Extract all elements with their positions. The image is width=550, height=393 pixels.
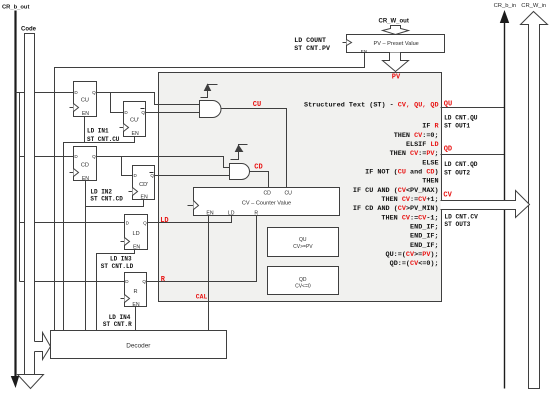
bus Code outline [25, 34, 35, 375]
svg-text:EN: EN [82, 111, 89, 117]
wire CD' D jog [122, 157, 133, 176]
svg-text:Decoder: Decoder [126, 342, 151, 349]
svg-text:Q: Q [143, 220, 147, 225]
svg-text:QU:=(CV>=PV);: QU:=(CV>=PV); [386, 251, 439, 259]
svg-text:QU: QU [299, 237, 307, 243]
svg-text:CR_b_in: CR_b_in [494, 3, 517, 9]
wire CR_b_in rail [504, 21, 506, 389]
svg-text:LD: LD [228, 211, 235, 217]
wire CD D row [20, 156, 74, 158]
svg-text:CR_W_out: CR_W_out [379, 19, 409, 25]
comparator QU CV>=PV [268, 228, 339, 257]
wire IN2 branch to CD' EN [86, 200, 144, 207]
wire IN3 net [97, 250, 135, 331]
flip-flop CD' [133, 166, 155, 200]
svg-text:QD: QD [299, 277, 307, 283]
svg-text:ELSE: ELSE [422, 159, 438, 167]
wire IN1 net [64, 137, 135, 331]
function block ST panel [159, 73, 442, 302]
svg-text:LD CNT.QD: LD CNT.QD [444, 161, 478, 168]
decoder [51, 331, 227, 359]
svg-text:CR_W_in: CR_W_in [521, 3, 546, 9]
register PV=Preset Value [347, 35, 445, 53]
svg-text:CAL: CAL [196, 294, 208, 301]
svg-text:CV<=0: CV<=0 [295, 283, 311, 289]
edge detect symbol CU [201, 85, 218, 98]
wire CD' Qbar to gate [155, 175, 230, 177]
wire LD Q to CV [148, 216, 232, 223]
svg-text:ST CNT.LD: ST CNT.LD [101, 263, 134, 270]
svg-text:CU': CU' [130, 117, 139, 123]
arrow CR_W_out into PV [383, 26, 409, 35]
svg-text:THEN: THEN [422, 178, 438, 186]
svg-text:LD IN1: LD IN1 [87, 127, 109, 134]
svg-text:THEN CV:=0;: THEN CV:=0; [394, 132, 439, 140]
svg-text:LD COUNT: LD COUNT [294, 37, 326, 44]
register CV=Counter Value [194, 188, 340, 216]
wire CR_b_out rail [14, 11, 16, 378]
svg-text:THEN CV:=CV-1;: THEN CV:=CV-1; [381, 214, 438, 222]
svg-text:ELSIF LD: ELSIF LD [406, 141, 439, 149]
svg-text:END_IF;: END_IF; [410, 224, 439, 232]
svg-text:CD: CD [263, 191, 271, 197]
svg-text:LD IN4: LD IN4 [109, 314, 131, 321]
wire CU' Qbar to gate [145, 112, 147, 114]
svg-text:R: R [254, 211, 258, 217]
svg-text:QU: QU [444, 100, 452, 108]
wire bit-branch vertical [19, 93, 21, 282]
wire R Q to CV [147, 216, 257, 282]
wire R D row [20, 281, 125, 283]
svg-text:Q: Q [141, 110, 145, 115]
wire QU output [441, 107, 505, 109]
wire CU Q to gate [97, 93, 200, 105]
wire IN4 net [135, 307, 137, 331]
svg-text:ST CNT.R: ST CNT.R [103, 321, 132, 328]
svg-text:Q: Q [150, 173, 154, 178]
svg-text:Q: Q [92, 154, 96, 159]
svg-text:IF NOT (CU and CD): IF NOT (CU and CD) [365, 169, 438, 177]
wire CU D row [16, 92, 74, 94]
arrow Code to Decoder outline [35, 333, 51, 360]
flip-flop CU' [124, 102, 146, 137]
AND gate U1 (CU) [200, 101, 222, 118]
svg-text:PV – Preset Value: PV – Preset Value [374, 41, 419, 47]
svg-text:IF R: IF R [422, 123, 439, 131]
wire IN2 net [85, 181, 87, 331]
svg-text:LD IN2: LD IN2 [90, 189, 112, 196]
arrow CV output [441, 191, 530, 218]
svg-text:IF CU AND (CV<PV_MAX): IF CU AND (CV<PV_MAX) [353, 187, 439, 195]
svg-text:IF CD AND (CV>PV_MIN): IF CD AND (CV>PV_MIN) [353, 205, 439, 213]
svg-text:ST CNT.CD: ST CNT.CD [90, 196, 123, 203]
svg-text:ST OUT2: ST OUT2 [444, 169, 470, 176]
svg-text:Structured Text (ST) - CV, QU,: Structured Text (ST) - CV, QU, QD [304, 101, 439, 109]
svg-text:EN: EN [361, 49, 368, 55]
svg-text:ST CNT.CU: ST CNT.CU [87, 136, 120, 143]
wire CD Q to gate [97, 157, 230, 168]
bus Code arrowhead [18, 375, 44, 389]
svg-text:CV – Counter Value: CV – Counter Value [242, 200, 291, 206]
svg-text:CV>=PV: CV>=PV [293, 244, 313, 250]
wire PV enable rail [55, 53, 365, 331]
svg-text:QD:=(CV<=0);: QD:=(CV<=0); [390, 260, 439, 268]
svg-text:Q: Q [92, 90, 96, 95]
svg-text:Q: Q [142, 279, 146, 284]
bus Code body fill [24, 33, 34, 375]
wire CU gate output [221, 109, 287, 188]
svg-text:CD': CD' [139, 182, 148, 188]
svg-text:THEN CV:=CV+1;: THEN CV:=CV+1; [381, 196, 438, 204]
svg-text:END_IF;: END_IF; [410, 233, 439, 241]
wire CD gate output [250, 172, 269, 188]
svg-text:EN: EN [132, 302, 139, 308]
svg-text:CV: CV [443, 192, 452, 200]
svg-text:Code: Code [21, 27, 37, 33]
wire CU' D jog [111, 93, 124, 113]
svg-text:LD CNT.QU: LD CNT.QU [444, 114, 478, 121]
svg-text:CR_b_out: CR_b_out [2, 5, 29, 11]
wire IN1 branch to CU EN [84, 117, 86, 143]
svg-text:ST CNT.PV: ST CNT.PV [294, 45, 330, 52]
svg-text:CD: CD [254, 164, 262, 172]
svg-text:LD IN3: LD IN3 [110, 256, 132, 263]
svg-text:LD: LD [160, 217, 168, 225]
arrow Code to Decoder fill [35, 333, 51, 359]
svg-text:EN: EN [141, 195, 148, 201]
flip-flop CU [74, 82, 97, 117]
comparator QD CV<=0 [268, 267, 339, 295]
AND gate U2 (CD) [230, 164, 250, 180]
arrow CR_b_in head [501, 12, 509, 23]
svg-text:END_IF;: END_IF; [410, 242, 439, 250]
svg-text:CU: CU [253, 101, 261, 109]
svg-text:EN: EN [206, 211, 213, 217]
svg-text:QD: QD [444, 146, 452, 154]
svg-text:ST OUT1: ST OUT1 [444, 123, 470, 130]
bus CR_W_in [521, 12, 548, 389]
svg-text:LD CNT.CV: LD CNT.CV [444, 213, 478, 220]
arrow PV to panel [383, 53, 409, 72]
svg-text:THEN CV:=PV;: THEN CV:=PV; [390, 150, 439, 158]
svg-text:EN: EN [82, 176, 89, 182]
flip-flop R [125, 273, 147, 307]
svg-text:CU: CU [284, 191, 292, 197]
svg-text:R: R [133, 289, 137, 295]
arrow CR_b_out head [12, 377, 19, 387]
wire LD D row [20, 222, 125, 224]
svg-text:ST OUT3: ST OUT3 [444, 221, 470, 228]
flip-flop LD [125, 215, 148, 250]
svg-text:EN: EN [133, 244, 140, 250]
CV clock triangle [194, 201, 199, 210]
flip-flop CD [74, 147, 97, 181]
edge detect symbol CD [231, 145, 248, 160]
svg-text:EN: EN [131, 131, 138, 137]
svg-text:LD: LD [132, 231, 139, 237]
svg-text:CD: CD [81, 163, 89, 169]
PV clock triangle [347, 40, 352, 46]
svg-text:PV: PV [392, 73, 401, 81]
svg-text:CU: CU [81, 98, 89, 104]
wire QD output [441, 154, 505, 156]
wire CAL net [208, 216, 210, 331]
